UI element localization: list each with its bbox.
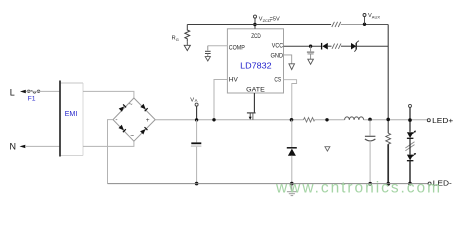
svg-text:EMI: EMI	[65, 109, 78, 118]
top rail	[187, 24, 331, 26]
node L arrowhead	[20, 90, 26, 93]
terminal above LED string	[409, 104, 412, 107]
bridge rectifier diamond	[113, 98, 155, 141]
svg-text:LED+: LED+	[432, 116, 454, 125]
fuse F1	[28, 90, 40, 93]
capacitor C-bulk	[196, 120, 198, 142]
ground arrow GND pin	[289, 64, 295, 70]
svg-text:=5V: =5V	[270, 17, 280, 23]
svg-text:GATE: GATE	[246, 87, 265, 93]
ground arrow RG	[186, 41, 188, 47]
transistor Q1	[247, 112, 256, 114]
svg-text:HV: HV	[229, 78, 238, 84]
junction dot after sense resistor	[325, 118, 328, 121]
capacitor C-vcc	[310, 46, 312, 51]
resistor R-dummy	[386, 133, 391, 144]
resistor inline vcc chain	[332, 44, 341, 49]
ground arrow C-comp	[205, 57, 210, 61]
wire GND pin	[284, 55, 292, 64]
junction dot ZCD rail	[253, 23, 256, 26]
diode D-freewheel	[291, 120, 293, 147]
wire HV branch	[214, 80, 227, 120]
bridge diode D-LL	[119, 125, 127, 133]
node N arrowhead	[20, 145, 26, 148]
capacitor C-comp	[208, 45, 228, 47]
junction dot switch node	[290, 118, 294, 122]
earth ground	[291, 184, 293, 192]
resistor R-sense inline	[304, 118, 315, 122]
wire L to EMI	[26, 90, 60, 92]
LED string break mark	[405, 142, 414, 148]
terminal VZCD circle	[254, 15, 257, 18]
aux vertical wire	[387, 25, 389, 134]
svg-text:VCC: VCC	[272, 43, 284, 49]
wire EMI to bridge top	[83, 91, 134, 98]
wire bridge minus to bottom rail	[108, 120, 114, 184]
wire VCC chain	[284, 45, 322, 47]
wire EMI to bridge bottom	[83, 141, 134, 146]
bridge diode D-LR	[140, 127, 148, 135]
junction dot Vaux	[363, 23, 366, 26]
bridge diode D-UL	[119, 104, 127, 112]
main rectified wire	[155, 119, 303, 121]
capacitor C-out	[369, 120, 371, 136]
bridge polarity marks	[115, 101, 149, 139]
label VZCD=5V	[259, 17, 280, 23]
svg-text:~: ~	[130, 133, 134, 140]
ground arrow floating	[325, 147, 330, 151]
ground arrow C-vcc	[308, 59, 314, 64]
terminal LED-	[428, 182, 431, 185]
diode D-vcc	[321, 43, 323, 50]
resistor RG	[185, 25, 190, 42]
node VA stub and terminal	[196, 106, 198, 120]
ZCD pin stub	[254, 18, 256, 29]
svg-text:COMP: COMP	[229, 45, 245, 51]
wire CS pin	[284, 80, 297, 120]
svg-text:www.cntronics.com: www.cntronics.com	[275, 179, 440, 196]
EMI filter block	[60, 81, 83, 157]
svg-text:A: A	[195, 98, 198, 103]
svg-text:+: +	[146, 117, 150, 124]
transistor Q1 gate stub	[253, 93, 255, 112]
svg-text:AUX: AUX	[372, 14, 381, 19]
svg-text:LD7832: LD7832	[240, 60, 272, 70]
bridge diode D-UR	[140, 104, 148, 112]
svg-text:ZCD: ZCD	[251, 34, 261, 40]
wire N to EMI	[25, 145, 60, 147]
terminal LED+	[427, 119, 430, 122]
svg-text:CS: CS	[274, 77, 281, 83]
svg-text:L: L	[10, 87, 15, 97]
LED D1	[407, 132, 413, 138]
inductor L1	[345, 117, 364, 120]
svg-text:N: N	[10, 141, 17, 151]
svg-text:GND: GND	[271, 53, 284, 59]
terminal Vaux	[364, 16, 366, 24]
zener diode Z-vcc	[351, 43, 356, 50]
LED D2	[407, 155, 413, 161]
junction dot C-out	[368, 118, 372, 122]
bottom rail	[108, 183, 429, 185]
svg-text:F1: F1	[28, 96, 36, 103]
svg-text:-: -	[115, 117, 117, 124]
svg-text:~: ~	[129, 101, 133, 108]
resistor inline top rail	[332, 22, 341, 27]
op-amp U1 LD7832 box	[227, 29, 283, 93]
svg-text:G: G	[176, 37, 179, 42]
